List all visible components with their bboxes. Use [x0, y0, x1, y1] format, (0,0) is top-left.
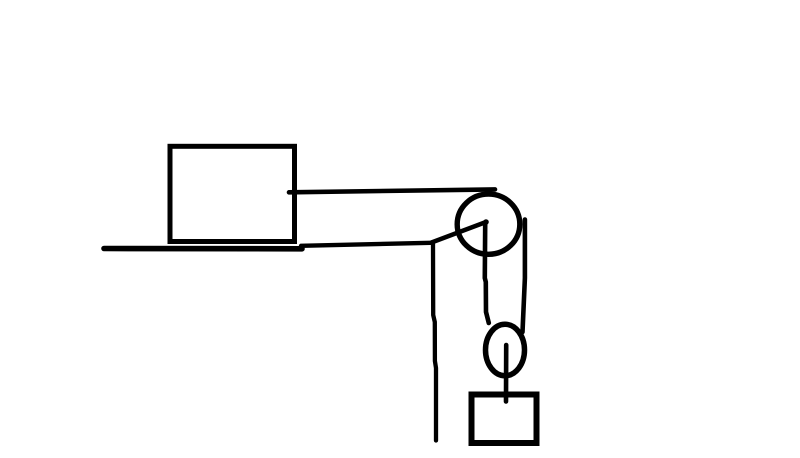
wire rope from block M1 to pulley P1 [289, 189, 495, 192]
wire hanger link from P2 axle to mass M2 [504, 345, 509, 402]
pulley P2 (small, movable) [486, 324, 525, 375]
wire rope along table to bend point [301, 243, 431, 246]
wire vertical support line [433, 244, 436, 441]
table surface line [104, 246, 302, 252]
mass M2 (hanging block) [472, 395, 537, 444]
wire rope right side from P1 down to pulley P2 [523, 220, 525, 333]
node axle of pulley P1 [483, 219, 489, 225]
pulley P1 (large) [457, 194, 520, 254]
block M1 on table [170, 146, 295, 241]
wire slanted link from bend point to pulley P1 axle [432, 222, 487, 243]
wire rope from P1 axle down to pulley P2 [485, 223, 489, 323]
